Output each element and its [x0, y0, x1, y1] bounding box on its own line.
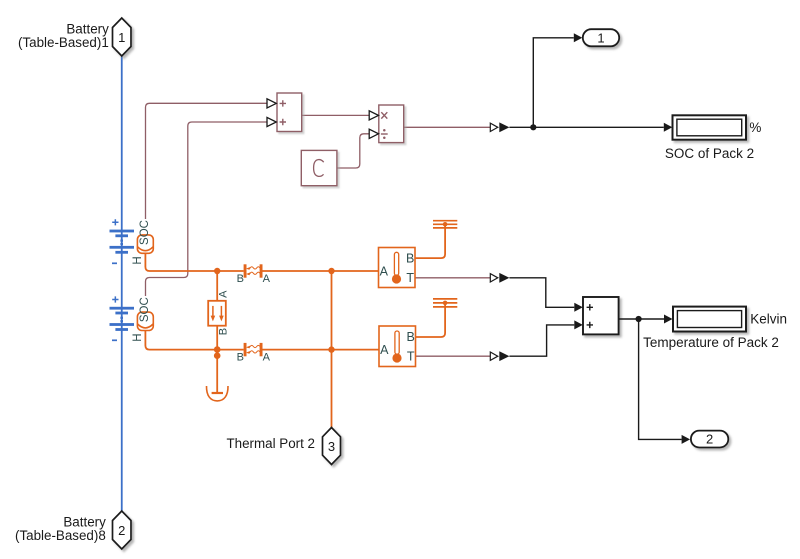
svg-text:T: T [406, 271, 414, 285]
svg-text:A: A [380, 264, 389, 278]
svg-text:B: B [237, 352, 244, 364]
svg-text:%: % [749, 120, 761, 135]
outport 1 [583, 29, 619, 46]
svg-text:1: 1 [597, 31, 604, 46]
svg-text:A: A [263, 273, 271, 285]
display SOC of Pack 2 [673, 115, 747, 139]
converter PS-Simulink 1 [490, 122, 509, 132]
thermal mass M1 [433, 221, 457, 228]
temperature sensor S1 [379, 248, 416, 288]
wire to thermal ground [216, 350, 218, 393]
junction node black 1 [530, 124, 536, 130]
wire heat flow sensor bottom [216, 326, 218, 350]
svg-text:H: H [132, 256, 144, 264]
wire electrical blue [121, 56, 123, 511]
temperature sensor S2 [379, 326, 416, 367]
input triangle divide 1 [369, 111, 378, 120]
input triangle add 2 [267, 117, 276, 126]
PS add block [277, 93, 302, 132]
svg-text:(Table-Based)1: (Table-Based)1 [18, 35, 109, 50]
wire sum2 to branch [619, 318, 639, 320]
wire sensor2 B to mass2 [415, 303, 445, 337]
port 1 hexagon [113, 18, 132, 56]
svg-text:A: A [263, 352, 271, 364]
wire thermal trunk to port3 [331, 271, 333, 428]
wire PS SOC1 to sum [146, 103, 267, 219]
wire thermal H1 [145, 253, 243, 271]
sum block add2 [583, 297, 619, 334]
wire converter2 to sum [509, 278, 574, 308]
svg-text:Thermal Port 2: Thermal Port 2 [226, 436, 315, 451]
svg-text:T: T [407, 349, 415, 363]
svg-text:B: B [406, 251, 414, 265]
svg-text:(Table-Based)8: (Table-Based)8 [15, 528, 106, 543]
SOC port pill 2 [137, 297, 153, 330]
wire branch down to outport2 [639, 319, 682, 439]
PS divide block [379, 105, 404, 143]
wire branch to display2 [639, 318, 664, 320]
wire PS SOC2 to sum [146, 122, 267, 296]
svg-text:Kelvin: Kelvin [750, 311, 787, 326]
PS constant C [301, 150, 337, 185]
battery B2 [110, 296, 135, 340]
input triangle divide 2 [369, 129, 378, 138]
junction node H2-trunk [328, 346, 334, 352]
svg-text:B: B [407, 330, 415, 344]
SOC port pill 1 [137, 220, 153, 253]
svg-text:3: 3 [328, 439, 335, 454]
svg-text:H: H [132, 333, 144, 341]
svg-text:2: 2 [706, 432, 713, 447]
junction node H2-ground [214, 352, 221, 359]
wire sensor2 T to converter3 [415, 355, 490, 357]
wire branch to display1 [533, 126, 664, 128]
thermal mass M2 [433, 299, 457, 307]
svg-text:B: B [218, 328, 230, 335]
wire cond2 to sensor2 A [262, 349, 379, 351]
svg-text:SOC: SOC [139, 220, 151, 245]
svg-text:1: 1 [118, 30, 125, 45]
wire heat flow sensor top [216, 271, 218, 301]
junction node H1-heatflow [214, 268, 220, 274]
wire branch up to outport1 [533, 38, 574, 128]
converter PS-Simulink 2 [490, 273, 509, 283]
wire converter1 to branch [509, 126, 533, 128]
converter PS-Simulink 3 [490, 351, 509, 361]
port 3 hexagon [323, 428, 341, 465]
wire thermal H2 [145, 330, 243, 349]
wire sensor1 B to mass1 [415, 224, 445, 258]
port 2 hexagon [113, 511, 132, 549]
svg-text:A: A [218, 290, 230, 298]
battery B1 [110, 219, 135, 263]
conductive heat transfer G2 [237, 343, 271, 364]
svg-text:SOC of Pack 2: SOC of Pack 2 [665, 146, 754, 161]
wire C to product [337, 134, 369, 168]
wire product to converter1 [404, 126, 491, 128]
junction node H2-heatflow [214, 346, 221, 353]
wire sensor1 T to converter2 [415, 277, 490, 279]
wire sum to product [302, 114, 369, 116]
junction node black 2 [636, 316, 642, 322]
display Temperature of Pack 2 [673, 307, 746, 332]
svg-text:A: A [380, 343, 389, 357]
wire converter3 to sum [509, 325, 574, 356]
svg-text:SOC: SOC [139, 297, 151, 322]
conductive heat transfer G1 [237, 264, 271, 285]
wire cond1 to sensor1 A [262, 270, 378, 272]
input triangle add 1 [267, 99, 276, 108]
svg-text:Temperature of Pack 2: Temperature of Pack 2 [643, 335, 779, 350]
thermal ground [206, 386, 228, 401]
junction node H1-trunk [328, 268, 334, 274]
svg-text:B: B [237, 273, 244, 285]
outport 2 [691, 431, 728, 448]
heat flow rate sensor [208, 290, 229, 335]
svg-text:2: 2 [118, 523, 125, 538]
